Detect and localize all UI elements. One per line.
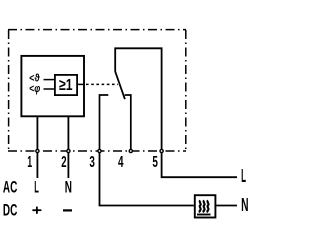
svg-text:2: 2	[61, 154, 66, 171]
heater symbol base bar	[197, 214, 211, 216]
svg-text:1: 1	[27, 154, 32, 171]
heater symbol squiggle 2	[203, 200, 204, 212]
svg-text:5: 5	[152, 154, 158, 171]
wire heater to N out	[216, 205, 237, 207]
wire theta input stub	[44, 79, 55, 81]
wire sensor box to terminal 1	[36, 116, 38, 149]
actuator dashed link	[86, 83, 118, 85]
terminal 1	[36, 149, 39, 152]
svg-text:N: N	[241, 195, 248, 215]
enclosure dash-dot border right	[185, 30, 187, 151]
wire terminal 1 to L label	[36, 153, 38, 178]
svg-text:≥1: ≥1	[59, 77, 73, 94]
svg-text:<φ: <φ	[29, 83, 40, 95]
svg-text:L: L	[34, 178, 39, 196]
contact seat to terminal 3	[100, 95, 109, 149]
sensor unit box U1	[21, 56, 84, 116]
wire terminal 3 to heater	[100, 153, 194, 206]
heater R1 box	[195, 195, 216, 217]
wire sensor box to terminal 2	[67, 116, 69, 149]
contact seat to terminal 4	[125, 95, 131, 149]
terminal 4	[129, 149, 132, 152]
svg-text:N: N	[65, 178, 72, 196]
terminal 2	[67, 149, 70, 152]
enclosure dash-dot border top	[8, 29, 186, 31]
heater symbol squiggle 3	[207, 200, 208, 212]
switch S1 common bar and feed to terminal 5	[115, 48, 161, 149]
heater symbol squiggle 1	[200, 200, 201, 212]
terminal 3	[98, 149, 101, 152]
label minus (DC)	[63, 209, 72, 211]
svg-text:AC: AC	[3, 178, 17, 196]
enclosure dash-dot border bottom	[8, 150, 186, 152]
OR gate box >=1	[55, 75, 77, 95]
svg-text:DC: DC	[3, 201, 17, 219]
wire gate output	[77, 83, 85, 85]
switch blade	[115, 72, 125, 100]
wire terminal 5 to L out	[162, 153, 237, 177]
svg-text:3: 3	[89, 154, 95, 171]
wire phi input stub	[44, 88, 55, 90]
svg-text:4: 4	[118, 154, 124, 171]
svg-text:L: L	[241, 166, 246, 186]
wire terminal 2 to N label	[67, 153, 69, 178]
enclosure dash-dot border left	[8, 30, 10, 151]
label + (DC)	[32, 207, 41, 214]
terminal 5	[160, 149, 163, 152]
